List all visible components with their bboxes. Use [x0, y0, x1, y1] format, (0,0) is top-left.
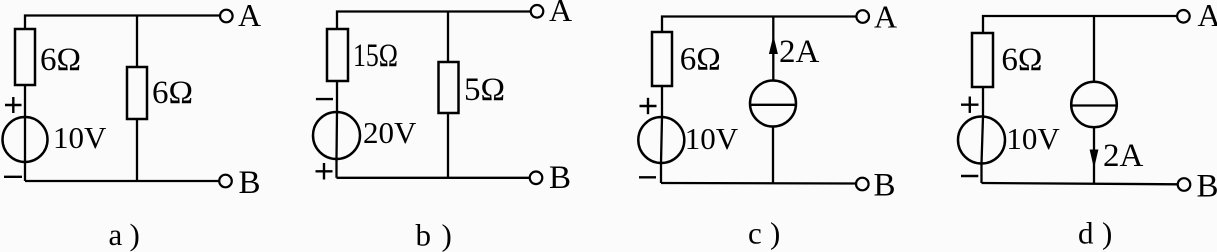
wire: top wire d [983, 16, 1177, 33]
polarity − (circuit c) [639, 176, 656, 178]
svg-text:10V: 10V [685, 121, 739, 156]
wire: middle branch top a [136, 16, 138, 68]
wire: resistor to source c [661, 86, 663, 117]
value label 5Ω (circuit b) [464, 72, 505, 108]
caption b) [416, 218, 452, 252]
svg-text:6Ω: 6Ω [680, 42, 721, 78]
voltage source 20V (circuit b) [313, 112, 360, 159]
polarity − (circuit b) [316, 98, 333, 100]
wire: resistor to source a [24, 85, 26, 117]
svg-text:d: d [1078, 216, 1094, 251]
node B label (circuit c) [874, 168, 896, 204]
wire: source to bottom a [24, 162, 26, 181]
current arrow 2A up (circuit c) [769, 36, 778, 55]
svg-text:6Ω: 6Ω [40, 42, 81, 78]
wire: middle branch bottom a [136, 119, 138, 181]
svg-text:B: B [1197, 169, 1217, 205]
value label 10V (circuit d) [1006, 121, 1060, 156]
svg-text:10V: 10V [1006, 121, 1060, 156]
resistor 5Ω (circuit b) [439, 62, 459, 113]
node A (circuit a) terminal [220, 10, 233, 23]
value label 10V (circuit a) [53, 120, 107, 155]
value label 6Ω (left, circuit a) [40, 42, 81, 78]
wire: resistor to source b [336, 81, 338, 112]
node B (circuit c) terminal [856, 178, 869, 191]
resistor 6Ω (middle, circuit a) [127, 67, 147, 119]
node B label (circuit b) [549, 160, 571, 196]
svg-text:15Ω: 15Ω [353, 38, 398, 74]
wire: resistor to source d [982, 87, 984, 117]
wire: current source top lead c [772, 17, 774, 81]
wire: top wire b [337, 12, 531, 30]
svg-text:A: A [1198, 0, 1217, 33]
wire: bottom wire a [25, 180, 219, 182]
current source 2A (circuit c) [750, 81, 796, 127]
node B label (circuit a) [239, 165, 261, 201]
value label 10V (circuit c) [685, 121, 739, 156]
caption a) [109, 217, 140, 252]
wire: middle branch bottom b [447, 113, 449, 178]
svg-text:B: B [549, 160, 571, 196]
svg-text:6Ω: 6Ω [1001, 42, 1042, 78]
node A (circuit d) terminal [1177, 10, 1190, 23]
svg-text:B: B [239, 165, 261, 201]
value label 20V (circuit b) [363, 115, 417, 150]
polarity − (circuit a) [4, 176, 22, 178]
wire: bottom wire d [982, 183, 1178, 184]
svg-text:): ) [770, 216, 780, 251]
value label 6Ω (circuit d) [1001, 42, 1042, 78]
svg-text:20V: 20V [363, 115, 417, 150]
svg-text:b: b [416, 218, 432, 252]
resistor 15Ω (circuit b) [327, 29, 348, 81]
polarity + (circuit a) [5, 97, 22, 113]
wire: bottom wire c [661, 182, 856, 185]
node B (circuit d) terminal [1178, 178, 1191, 191]
value label 6Ω (middle, circuit a) [152, 75, 193, 111]
value label 6Ω (circuit c) [680, 42, 721, 78]
svg-text:2A: 2A [779, 34, 820, 70]
node A label (circuit c) [874, 0, 897, 35]
node A (circuit b) terminal [531, 5, 544, 18]
svg-text:A: A [874, 0, 897, 35]
svg-text:A: A [549, 0, 572, 28]
wire: source to bottom d [980, 164, 982, 184]
svg-text:6Ω: 6Ω [152, 75, 193, 111]
svg-text:10V: 10V [53, 120, 107, 155]
value label 15Ω (circuit b) [353, 38, 398, 74]
resistor 6Ω (left, circuit a) [15, 29, 35, 85]
resistor 6Ω (circuit c) [652, 32, 672, 86]
svg-text:a: a [109, 217, 123, 252]
wire: current source top lead d [1093, 16, 1095, 82]
caption d) [1078, 216, 1112, 251]
value label 2A (circuit c) [779, 34, 820, 70]
resistor 6Ω (circuit d) [972, 33, 993, 87]
polarity + (circuit d) [961, 97, 979, 113]
node B (circuit b) terminal [530, 172, 543, 185]
polarity + (circuit b) [316, 163, 333, 180]
node A label (circuit b) [549, 0, 572, 28]
svg-text:): ) [442, 218, 452, 252]
node B (circuit a) terminal [219, 175, 232, 188]
value label 2A (circuit d) [1103, 138, 1144, 174]
svg-text:B: B [874, 168, 896, 204]
polarity − (circuit d) [961, 175, 978, 177]
polarity + (circuit c) [640, 98, 657, 114]
current source 2A (circuit d) [1071, 82, 1117, 128]
wire: top wire a [25, 16, 220, 30]
wire: current source bottom lead c [772, 127, 774, 184]
wire: middle branch top b [447, 12, 449, 63]
svg-text:2A: 2A [1103, 138, 1144, 174]
current arrow 2A down (circuit d) [1090, 150, 1099, 169]
wire: source to bottom b [335, 159, 337, 178]
svg-text:5Ω: 5Ω [464, 72, 505, 108]
svg-text:c: c [748, 216, 762, 251]
wire: bottom wire b [337, 177, 530, 179]
wire: top wire c [662, 17, 857, 33]
wire: current source bottom lead d [1093, 127, 1095, 183]
voltage source 10V (circuit a) [3, 117, 48, 162]
node B label (circuit d) [1197, 169, 1217, 205]
node A label (circuit a) [238, 0, 261, 33]
wire: source to bottom c [660, 163, 662, 183]
voltage source 10V (circuit d) [958, 117, 1005, 164]
caption c) [748, 216, 780, 251]
svg-text:A: A [238, 0, 261, 33]
svg-text:): ) [1102, 216, 1112, 251]
voltage source 10V (circuit c) [638, 117, 684, 163]
node A (circuit c) terminal [856, 10, 869, 23]
svg-text:): ) [130, 217, 140, 252]
node A label (circuit d) [1198, 0, 1217, 33]
